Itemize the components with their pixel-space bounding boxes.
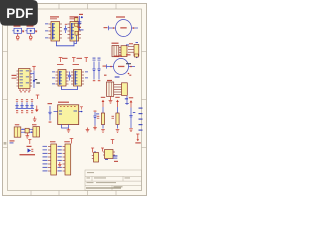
- svg-text:PDF: PDF: [6, 6, 33, 21]
- wire: [107, 64, 136, 68]
- capacitor C12: [48, 103, 53, 123]
- transistor Q1: [75, 14, 84, 44]
- power flag VCC: [115, 97, 119, 107]
- ground: [35, 106, 39, 113]
- power flag VCC: [70, 139, 74, 144]
- power flag VCC: [32, 66, 36, 70]
- LED circuit D2: [25, 26, 37, 34]
- connector J6: [58, 141, 71, 175]
- capacitor C1: [64, 24, 67, 33]
- net label: [126, 54, 131, 55]
- connector J1: [112, 43, 122, 57]
- motor M2: [114, 56, 129, 75]
- net label: [104, 75, 107, 76]
- power flag VCC: [111, 140, 115, 145]
- capacitor C6: [30, 99, 33, 113]
- ground: [116, 130, 120, 133]
- optocoupler U2: [68, 16, 82, 41]
- PDF badge: [0, 0, 38, 26]
- resistor R4: [92, 151, 99, 162]
- resistor R2: [97, 107, 105, 129]
- ground GND: [33, 117, 37, 122]
- power flag VCC: [129, 97, 133, 107]
- ground: [86, 128, 90, 132]
- motor M1: [116, 16, 132, 36]
- capacitor C8: [32, 124, 40, 137]
- capacitor C4: [20, 99, 23, 113]
- ground: [109, 96, 113, 103]
- label text: [20, 154, 36, 155]
- wire: [30, 71, 34, 89]
- net label: [115, 76, 120, 77]
- op-amp U3: [12, 69, 33, 89]
- capacitor C5: [25, 99, 28, 113]
- capacitor C3: [15, 99, 18, 113]
- connector J2: [121, 46, 127, 57]
- crystal X1: [21, 128, 34, 133]
- wire: [57, 41, 75, 46]
- power flag VCC: [84, 58, 88, 63]
- node VBAT: [10, 140, 15, 143]
- net label: [113, 155, 118, 158]
- wire: [62, 125, 69, 129]
- ground: [101, 130, 105, 133]
- wire: [62, 86, 78, 89]
- power flag VCC: [72, 58, 76, 63]
- power flag VCC: [101, 148, 104, 152]
- sheet background: [0, 0, 149, 198]
- ground: [93, 126, 97, 130]
- node: [128, 73, 130, 75]
- capacitor C9: [68, 72, 71, 81]
- net label: [126, 63, 131, 64]
- resistor R3: [112, 107, 120, 129]
- connector J3: [107, 80, 122, 97]
- power flag VCC: [36, 95, 40, 99]
- ground: [26, 133, 30, 138]
- capacitor C11: [97, 58, 100, 82]
- ground: [129, 129, 133, 132]
- transistor Q2: [33, 79, 40, 84]
- connector J4: [122, 83, 128, 96]
- capacitor C13: [93, 111, 99, 126]
- net label: [139, 108, 143, 131]
- ground: [67, 128, 71, 132]
- capacitor C7: [14, 124, 21, 137]
- ground: [29, 34, 32, 40]
- LED D4: [27, 146, 34, 153]
- ground: [58, 162, 62, 167]
- module U6: [54, 102, 84, 125]
- ground: [16, 34, 19, 40]
- power flag VCC: [28, 140, 31, 145]
- capacitor C14: [129, 108, 135, 129]
- optocoupler U5: [71, 58, 88, 86]
- optocoupler U4: [52, 58, 69, 86]
- net label: [129, 75, 131, 76]
- capacitor C10: [92, 58, 95, 82]
- net label: [125, 96, 129, 105]
- power flag VBAT: [135, 134, 141, 144]
- pin numbers: [19, 90, 31, 93]
- power flag VCC: [59, 58, 63, 63]
- connector J5: [43, 141, 57, 175]
- net label: [126, 44, 129, 45]
- power flag VCC: [91, 148, 94, 153]
- optocoupler U1: [45, 16, 62, 41]
- IC U7: [103, 150, 118, 163]
- wire: [109, 26, 139, 30]
- LED circuit D1: [12, 26, 24, 34]
- title block: [85, 170, 142, 191]
- wire: [16, 107, 35, 109]
- resistor RN2: [134, 54, 138, 57]
- power flag VCC: [101, 97, 105, 107]
- resistor RN1: [128, 42, 139, 58]
